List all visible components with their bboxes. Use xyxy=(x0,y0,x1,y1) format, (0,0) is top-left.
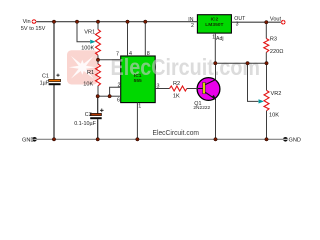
svg-text:6: 6 xyxy=(117,97,120,103)
svg-text:4: 4 xyxy=(129,51,132,57)
svg-text:Vin: Vin xyxy=(23,19,31,25)
svg-text:GND: GND xyxy=(289,138,301,144)
svg-text:VR1: VR1 xyxy=(84,30,95,36)
node adj R3 VR2 xyxy=(265,62,268,65)
node top wiper xyxy=(75,20,78,23)
wire C3 bottom xyxy=(97,119,99,139)
terminal Vin xyxy=(32,19,37,24)
wire pin3 xyxy=(155,88,169,90)
svg-text:2N2222: 2N2222 xyxy=(193,105,210,111)
node top VR1 xyxy=(96,20,99,23)
terminal Vout xyxy=(281,20,286,25)
svg-text:IC2: IC2 xyxy=(211,16,219,22)
node top pin4 xyxy=(126,20,129,23)
svg-text:5V to 15V: 5V to 15V xyxy=(21,26,46,32)
svg-text:3: 3 xyxy=(236,21,239,27)
regulator IC2 LM350T xyxy=(205,16,223,28)
wire VR2 wiper xyxy=(248,63,259,101)
svg-text:2: 2 xyxy=(191,23,194,29)
timer IC1 555 labels xyxy=(134,73,142,84)
svg-text:C3: C3 xyxy=(85,112,92,118)
capacitor C3 xyxy=(90,109,103,120)
svg-text:VR2: VR2 xyxy=(271,91,282,97)
node top C1 xyxy=(52,20,55,23)
wire pin8 xyxy=(144,22,146,56)
terminal GND right xyxy=(283,137,288,142)
wire node2-6 horizontal xyxy=(98,95,110,97)
svg-text:1µF: 1µF xyxy=(40,80,50,86)
wire C1 branch upper xyxy=(53,22,55,80)
wire pin1 xyxy=(136,103,138,140)
watermark logo square xyxy=(67,50,98,84)
svg-text:3: 3 xyxy=(157,84,160,90)
svg-text:C1: C1 xyxy=(42,74,49,80)
svg-text:0.1-10µF: 0.1-10µF xyxy=(74,121,96,127)
wire Adj xyxy=(214,33,216,63)
svg-text:10K: 10K xyxy=(269,112,279,118)
svg-text:8: 8 xyxy=(147,51,150,57)
svg-text:Adj: Adj xyxy=(216,36,224,42)
wire pin6 xyxy=(110,95,121,97)
wire pin2 xyxy=(110,87,121,96)
svg-text:7: 7 xyxy=(116,52,119,58)
resistor R1 xyxy=(97,60,99,64)
wire VR1 to node7 xyxy=(97,55,99,60)
resistor R3 xyxy=(265,22,267,38)
terminal GND left xyxy=(32,137,37,142)
svg-text:R2: R2 xyxy=(173,81,180,87)
timer IC1 555 body xyxy=(121,56,156,103)
node gnd pin1 xyxy=(136,138,139,141)
node gnd VR2 xyxy=(265,138,268,141)
svg-text:100K: 100K xyxy=(81,45,94,51)
node Vout R3 xyxy=(265,21,268,24)
svg-text:GND: GND xyxy=(22,137,34,143)
node pin7 xyxy=(96,58,99,61)
node R1 C3 xyxy=(96,95,99,98)
svg-text:2: 2 xyxy=(118,83,121,89)
wire IC2 OUT to Vout xyxy=(231,21,281,23)
svg-text:R3: R3 xyxy=(270,36,277,42)
wire pin4 xyxy=(127,22,129,56)
resistor R2 xyxy=(170,86,187,91)
svg-text:555: 555 xyxy=(134,78,142,84)
svg-text:R1: R1 xyxy=(87,70,94,76)
wire VR1 wiper xyxy=(77,22,90,42)
svg-text:220Ω: 220Ω xyxy=(270,49,284,55)
wire VR1 top lead xyxy=(97,22,99,30)
svg-text:10K: 10K xyxy=(83,82,93,88)
wire C1 branch lower xyxy=(53,85,55,140)
svg-text:ElecCircuit.com: ElecCircuit.com xyxy=(153,130,200,137)
wire C3 top xyxy=(97,96,99,113)
node pin2 pin6 xyxy=(108,95,111,98)
VR2 wiper arrow xyxy=(259,99,264,103)
transistor Q1 2N2222 xyxy=(198,63,217,139)
capacitor C1 xyxy=(49,74,61,86)
svg-text:1: 1 xyxy=(138,104,141,110)
wire node7 to pin7 xyxy=(98,59,121,61)
wire bottom ground rail xyxy=(37,138,284,140)
node top pin8 xyxy=(144,20,147,23)
transistor Q1 body xyxy=(197,78,220,101)
node gnd C1 xyxy=(52,138,55,141)
svg-text:LM350T: LM350T xyxy=(205,22,223,28)
node gnd C3 xyxy=(96,138,99,141)
node gnd emitter xyxy=(214,138,217,141)
node adj wiper xyxy=(246,62,249,65)
wire top rail Vin to IC2 IN xyxy=(36,21,197,23)
svg-text:1K: 1K xyxy=(173,93,180,99)
node adj collector xyxy=(214,62,217,65)
VR1 wiper arrow xyxy=(90,40,95,44)
potentiometer VR2 xyxy=(266,63,268,90)
svg-text:Vout: Vout xyxy=(270,16,282,22)
regulator IC2 LM350T body xyxy=(197,15,231,33)
wire adj rail xyxy=(215,62,266,64)
potentiometer VR1 xyxy=(96,30,101,56)
